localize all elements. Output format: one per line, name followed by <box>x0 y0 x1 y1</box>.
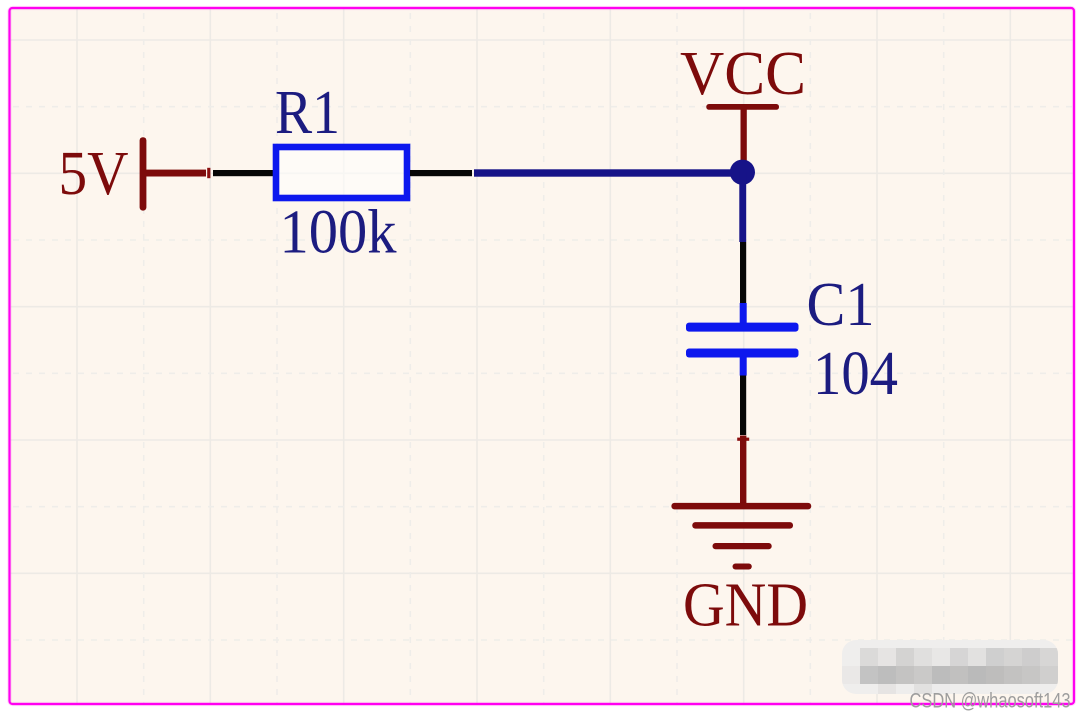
ground bar 1 <box>671 503 811 510</box>
watermark mosaic blur patch <box>842 640 1058 694</box>
watermark text CSDN <box>910 690 1071 713</box>
VCC label <box>680 38 806 108</box>
ground stem wire <box>740 436 746 504</box>
wire (black pin, R1 pin 1) <box>213 170 273 176</box>
net port 5V label <box>59 138 129 208</box>
resistor R1 designator label <box>275 77 340 147</box>
capacitor C1 bottom pin stub <box>740 356 747 376</box>
svg-text:R1: R1 <box>275 77 340 147</box>
ground bar 2 <box>692 522 793 529</box>
svg-text:GND: GND <box>683 570 808 640</box>
capacitor C1 top plate <box>686 323 799 332</box>
pin-end marker cross (port to R1 pin) <box>207 168 210 178</box>
capacitor C1 value label 104 <box>813 338 898 408</box>
svg-text:100k: 100k <box>280 197 398 267</box>
resistor R1 body <box>276 147 407 198</box>
net port 5V bar <box>140 137 147 210</box>
capacitor C1 top pin stub <box>740 303 747 324</box>
pin-end marker cross (C1 to GND) <box>737 438 749 441</box>
wire (black pin, R1 pin 2) <box>410 170 472 176</box>
wire (black pin, C1 pin 1) <box>740 242 746 304</box>
VCC power symbol stem <box>741 107 747 163</box>
GND label <box>683 570 808 640</box>
wire (black pin, C1 pin 2) <box>740 376 746 436</box>
capacitor C1 designator label <box>807 269 875 339</box>
wire (navy net, vertical below node) <box>739 172 746 242</box>
svg-text:VCC: VCC <box>680 38 806 108</box>
junction node dot <box>730 160 755 185</box>
VCC power symbol bar <box>706 104 779 110</box>
ground bar 3 <box>713 543 772 549</box>
ground bar 4 <box>733 564 752 570</box>
capacitor C1 bottom plate <box>686 349 799 358</box>
resistor R1 value label 100k <box>280 197 398 267</box>
svg-text:CSDN @whaosoft143: CSDN @whaosoft143 <box>910 690 1071 713</box>
svg-text:5V: 5V <box>59 138 129 208</box>
net port 5V lead wire <box>143 170 206 177</box>
wire (navy net, horizontal to node) <box>474 169 743 176</box>
svg-text:C1: C1 <box>807 269 875 339</box>
svg-text:104: 104 <box>813 338 898 408</box>
